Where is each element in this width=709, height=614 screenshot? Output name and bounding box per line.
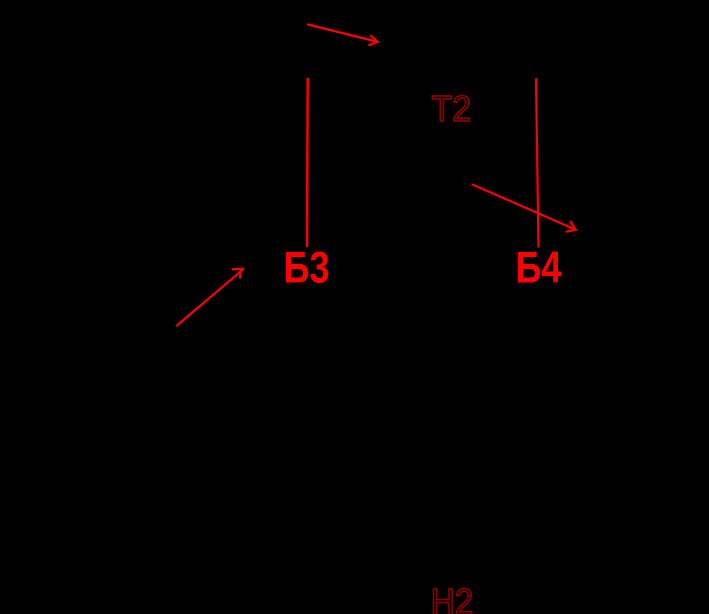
leader line to Б3 (vertical) [306, 78, 309, 247]
arrow C (lower-left annotation arrow pointing up-right) [176, 269, 244, 326]
arrow B (diagonal annotation arrow pointing down-right) [472, 184, 576, 232]
arrow A (top annotation arrow pointing right) [307, 24, 378, 45]
leader line to Б4 (vertical) [536, 78, 539, 247]
svg-text:Б4: Б4 [516, 244, 562, 293]
svg-text:Т2: Т2 [432, 88, 472, 129]
svg-text:Н2: Н2 [431, 582, 474, 614]
svg-text:Б3: Б3 [284, 244, 330, 293]
